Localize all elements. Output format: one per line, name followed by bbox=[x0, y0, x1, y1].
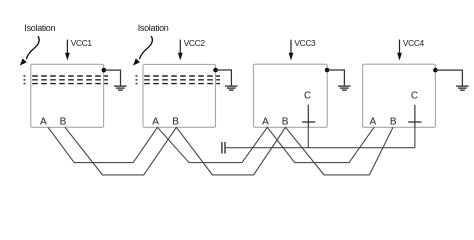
ground G1 bbox=[114, 86, 127, 90]
svg-text:B: B bbox=[390, 116, 397, 127]
svg-text:VCC1: VCC1 bbox=[71, 38, 93, 48]
isolation pointer arrow (U2) bbox=[140, 36, 153, 59]
bus line A daisy chain bbox=[48, 127, 374, 162]
wire U2 to ground bbox=[216, 70, 232, 85]
VCC3 supply arrow bbox=[289, 38, 316, 60]
wire C pin U4 drop bbox=[414, 127, 416, 148]
isolation pointer arrow (U1) bbox=[26, 36, 39, 59]
svg-text:A: A bbox=[40, 116, 47, 127]
svg-text:VCC3: VCC3 bbox=[294, 38, 316, 48]
antenna pin C (U4) bbox=[414, 105, 416, 127]
svg-text:A: A bbox=[370, 116, 377, 127]
wire capacitor to C pins bbox=[226, 147, 415, 149]
bus line B daisy chain bbox=[65, 127, 393, 175]
wire U1 to ground bbox=[104, 70, 121, 85]
svg-text:Isolation: Isolation bbox=[24, 23, 55, 33]
block U4 bbox=[363, 64, 436, 127]
block U2 bbox=[143, 64, 216, 127]
wire U3 to ground bbox=[327, 70, 344, 85]
svg-text:VCC2: VCC2 bbox=[184, 38, 206, 48]
junction node U3 bbox=[325, 68, 330, 73]
svg-text:B: B bbox=[172, 116, 179, 127]
isolation barrier U1 (dashed rows) bbox=[24, 76, 109, 84]
svg-text:VCC4: VCC4 bbox=[403, 38, 425, 48]
svg-text:B: B bbox=[282, 116, 289, 127]
VCC2 supply arrow bbox=[178, 38, 205, 60]
junction node U1 bbox=[102, 68, 107, 73]
svg-text:A: A bbox=[152, 116, 159, 127]
junction node U2 bbox=[213, 68, 218, 73]
svg-text:Isolation: Isolation bbox=[138, 23, 169, 33]
ground G3 bbox=[338, 86, 351, 90]
svg-text:C: C bbox=[411, 91, 418, 102]
block U1 bbox=[31, 64, 104, 127]
ground G2 bbox=[225, 86, 238, 90]
svg-text:B: B bbox=[60, 116, 67, 127]
wire C pin U3 drop bbox=[307, 127, 309, 148]
antenna pin C (U3) bbox=[307, 105, 309, 127]
svg-text:A: A bbox=[262, 116, 269, 127]
VCC1 supply arrow bbox=[65, 38, 92, 60]
isolation barrier U2 (dashed rows) bbox=[136, 76, 221, 84]
block U3 bbox=[254, 64, 328, 127]
capacitor C1 (series stub) bbox=[221, 142, 223, 154]
junction node U4 bbox=[433, 68, 438, 73]
svg-text:C: C bbox=[304, 91, 311, 102]
wire U4 to ground bbox=[435, 70, 462, 85]
VCC4 supply arrow bbox=[397, 38, 424, 60]
ground G4 bbox=[456, 86, 469, 90]
